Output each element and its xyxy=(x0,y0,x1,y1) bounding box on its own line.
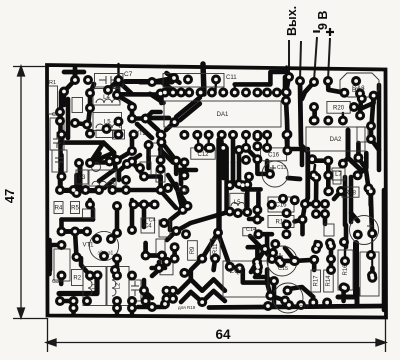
wire xyxy=(172,247,177,258)
wire xyxy=(62,92,67,106)
wire xyxy=(351,213,358,221)
inductor coil arcs xyxy=(88,99,245,296)
wire xyxy=(130,301,135,313)
wire xyxy=(75,232,77,258)
svg-text:VT1: VT1 xyxy=(83,243,95,249)
wire xyxy=(224,148,229,211)
pad xyxy=(156,137,166,147)
component L7 xyxy=(332,168,345,180)
pad xyxy=(170,117,180,127)
pad xyxy=(242,180,252,190)
wire xyxy=(73,68,78,80)
wire xyxy=(62,229,88,234)
wire xyxy=(256,193,261,211)
svg-text:L1: L1 xyxy=(92,282,98,289)
component can outline xyxy=(350,216,379,245)
wire xyxy=(279,259,294,264)
wire xyxy=(157,262,162,268)
wire xyxy=(354,96,374,109)
svg-text:C7: C7 xyxy=(124,71,133,78)
pad xyxy=(205,143,215,153)
wire xyxy=(117,151,132,160)
wire xyxy=(203,64,204,94)
wire xyxy=(115,259,120,276)
wire xyxy=(168,175,188,206)
component can outline xyxy=(267,246,297,276)
component outline xyxy=(324,224,334,236)
component L3 xyxy=(76,170,88,184)
pad xyxy=(156,185,166,195)
wire xyxy=(78,163,83,188)
svg-text:C3: C3 xyxy=(52,279,59,285)
wire xyxy=(221,148,226,178)
pad xyxy=(135,163,145,173)
pad xyxy=(179,268,189,278)
svg-text:R17: R17 xyxy=(313,275,319,287)
pad xyxy=(147,77,157,87)
wire xyxy=(48,245,53,270)
pad xyxy=(252,130,262,140)
wire xyxy=(90,160,110,165)
pad xyxy=(197,297,207,307)
svg-text:C16: C16 xyxy=(275,203,287,209)
component R18 xyxy=(342,187,359,197)
wire xyxy=(328,81,344,93)
wire xyxy=(251,262,257,272)
svg-text:C17: C17 xyxy=(299,305,309,311)
wire xyxy=(170,210,183,230)
svg-text:C4: C4 xyxy=(144,224,152,230)
wire xyxy=(160,190,176,208)
wire xyxy=(130,200,135,230)
wire xyxy=(344,249,346,261)
wire xyxy=(180,104,200,121)
pad xyxy=(121,175,131,185)
pad xyxy=(85,158,95,168)
component outline xyxy=(150,143,161,156)
pad xyxy=(141,296,151,306)
component DA1 xyxy=(164,101,281,127)
svg-text:R5: R5 xyxy=(71,206,79,212)
wire xyxy=(353,243,359,297)
pad xyxy=(309,255,319,265)
pad xyxy=(265,169,275,179)
component L5 xyxy=(230,193,245,210)
dimension line bottom 64 xyxy=(46,318,386,352)
pad xyxy=(262,88,272,98)
wire xyxy=(59,220,64,232)
wire leads to supply pads xyxy=(289,37,330,81)
pad xyxy=(272,88,282,98)
pad xyxy=(156,164,166,174)
wire xyxy=(343,177,348,225)
svg-text:L7: L7 xyxy=(335,172,342,178)
wire xyxy=(159,92,164,103)
wire xyxy=(47,240,52,274)
wire xyxy=(88,200,93,205)
pad xyxy=(150,200,160,210)
svg-text:C1: C1 xyxy=(52,112,59,118)
pad xyxy=(127,146,137,156)
wire xyxy=(152,266,165,271)
pad xyxy=(176,88,186,98)
pad xyxy=(207,88,217,98)
wire xyxy=(302,82,314,99)
pad xyxy=(284,72,294,82)
wire xyxy=(255,210,260,220)
pad xyxy=(282,208,292,218)
pad xyxy=(112,254,122,264)
pad xyxy=(70,227,80,237)
wire xyxy=(233,84,235,92)
pad xyxy=(156,155,166,165)
pad xyxy=(112,201,122,211)
pad xyxy=(322,298,332,308)
wire xyxy=(132,116,146,121)
wire xyxy=(174,161,179,174)
wire xyxy=(60,299,74,304)
pad xyxy=(156,130,166,140)
pad xyxy=(357,94,367,104)
wire xyxy=(338,295,356,300)
wire xyxy=(288,178,300,179)
component outline xyxy=(156,239,165,254)
wire xyxy=(62,229,76,234)
pad xyxy=(114,130,124,140)
svg-text:R18: R18 xyxy=(345,190,357,196)
pad xyxy=(268,248,278,258)
pad xyxy=(280,296,290,306)
wire xyxy=(59,273,64,284)
wire xyxy=(178,279,225,292)
component R12 xyxy=(268,216,294,228)
pad xyxy=(326,241,336,251)
pad xyxy=(69,296,79,306)
pad xyxy=(252,88,262,98)
component C12 xyxy=(191,148,215,159)
pad xyxy=(168,88,178,98)
wire xyxy=(144,291,152,299)
pad xyxy=(309,170,319,180)
pad xyxy=(85,88,95,98)
pad xyxy=(309,77,319,87)
wire xyxy=(368,191,373,205)
wire xyxy=(285,67,287,77)
pad xyxy=(278,194,288,204)
pad xyxy=(179,130,189,140)
pad xyxy=(233,208,243,218)
pad xyxy=(252,257,262,267)
pad xyxy=(298,215,308,225)
pad xyxy=(311,209,321,219)
pad xyxy=(178,205,188,215)
pad xyxy=(168,294,178,304)
pad xyxy=(241,143,251,153)
pad xyxy=(170,242,180,252)
svg-text:C16: C16 xyxy=(268,153,280,159)
pad xyxy=(276,258,286,268)
pad xyxy=(127,114,137,124)
pad xyxy=(289,256,299,266)
svg-text:L4: L4 xyxy=(103,95,110,101)
wire xyxy=(146,119,158,131)
wire xyxy=(64,80,75,92)
wire xyxy=(329,246,334,270)
pad xyxy=(281,229,291,239)
label plus xyxy=(326,28,334,36)
pad xyxy=(57,130,67,140)
wire xyxy=(59,155,64,177)
wire xyxy=(128,155,140,163)
wire xyxy=(59,276,97,294)
wire xyxy=(216,140,221,233)
dimension line left 47 xyxy=(13,66,47,319)
wire xyxy=(137,124,152,138)
pad xyxy=(228,130,238,140)
wire xyxy=(126,188,165,193)
wire xyxy=(218,233,228,261)
svg-text:R9: R9 xyxy=(190,246,196,254)
pad xyxy=(355,89,365,99)
wire xyxy=(207,135,209,148)
pad xyxy=(323,116,333,126)
pad xyxy=(179,185,189,195)
wire xyxy=(74,175,79,193)
svg-text:47: 47 xyxy=(2,189,17,203)
pad xyxy=(353,170,363,180)
pad xyxy=(218,88,228,98)
pad xyxy=(366,186,376,196)
svg-text:DA1: DA1 xyxy=(217,112,229,118)
wire xyxy=(257,249,265,262)
wire xyxy=(146,157,151,168)
wire xyxy=(209,306,384,308)
pad xyxy=(82,120,92,130)
component outline xyxy=(243,228,256,236)
pad xyxy=(235,263,245,273)
component can outline xyxy=(89,231,118,260)
wire xyxy=(119,82,131,93)
pad xyxy=(112,155,122,165)
pad xyxy=(218,143,228,153)
component can outline xyxy=(262,161,288,187)
pad xyxy=(103,85,113,95)
wire xyxy=(176,212,230,232)
wire xyxy=(71,189,95,194)
pad xyxy=(241,155,251,165)
wire xyxy=(160,140,176,161)
wire xyxy=(231,135,236,163)
wire xyxy=(255,277,274,284)
pad xyxy=(320,199,330,209)
pad xyxy=(340,283,350,293)
wire xyxy=(152,266,163,276)
wire xyxy=(62,217,94,222)
wire xyxy=(90,143,104,163)
pad xyxy=(57,240,67,250)
component outline xyxy=(95,74,124,88)
wire xyxy=(125,79,165,84)
pad xyxy=(179,157,189,167)
pad xyxy=(114,75,124,85)
solder pads xyxy=(55,72,379,313)
wire xyxy=(249,217,262,222)
wire xyxy=(257,159,270,174)
wire xyxy=(119,164,127,180)
wire xyxy=(191,259,202,280)
component R5 xyxy=(71,202,80,214)
wire xyxy=(90,153,114,164)
wire xyxy=(152,78,174,82)
pad xyxy=(163,183,173,193)
wire xyxy=(179,170,184,184)
wire xyxy=(246,148,257,159)
pad xyxy=(367,228,377,238)
wire xyxy=(349,177,354,222)
component R9 xyxy=(188,241,198,261)
wire xyxy=(344,225,349,247)
component L5 xyxy=(93,113,122,131)
wire xyxy=(144,291,146,302)
pad xyxy=(267,200,277,210)
pad xyxy=(179,170,189,180)
wire xyxy=(235,72,289,84)
svg-text:э1: э1 xyxy=(108,251,114,257)
pad xyxy=(55,107,65,117)
wire xyxy=(130,135,135,152)
pad xyxy=(129,130,139,140)
wire xyxy=(285,134,290,150)
wire xyxy=(140,80,172,85)
wire xyxy=(81,258,90,276)
wire xyxy=(371,235,373,276)
pad xyxy=(171,226,181,236)
wire xyxy=(358,158,364,166)
pad xyxy=(311,244,321,254)
svg-text:L3: L3 xyxy=(79,175,86,181)
svg-text:DA2: DA2 xyxy=(330,137,342,143)
pad xyxy=(157,251,167,261)
pad xyxy=(211,75,221,85)
component outline xyxy=(96,130,114,138)
pad xyxy=(262,143,272,153)
pad xyxy=(339,237,349,247)
component L4 xyxy=(93,89,120,106)
svg-text:R14: R14 xyxy=(326,275,332,287)
pad xyxy=(106,234,116,244)
wire xyxy=(132,162,144,177)
pad xyxy=(252,141,262,151)
pad xyxy=(290,195,300,205)
pad xyxy=(244,172,254,182)
wire xyxy=(243,270,267,283)
pad xyxy=(313,240,323,250)
pad xyxy=(105,157,115,167)
pad xyxy=(194,143,204,153)
wire xyxy=(158,177,163,191)
pad xyxy=(144,140,154,150)
wire xyxy=(91,209,96,220)
pad xyxy=(326,265,336,275)
pad xyxy=(225,180,235,190)
component R14 xyxy=(324,270,334,292)
pad xyxy=(112,90,122,100)
wire xyxy=(323,214,328,224)
wire xyxy=(358,153,367,175)
wire xyxy=(382,190,387,310)
pad xyxy=(192,130,202,140)
wire xyxy=(167,259,175,262)
pad xyxy=(296,300,306,310)
wire xyxy=(245,190,250,207)
pad xyxy=(269,276,279,286)
pad xyxy=(184,88,194,98)
pad xyxy=(369,91,379,101)
pad xyxy=(311,173,321,183)
wire xyxy=(181,291,225,302)
wire xyxy=(300,149,305,165)
pad xyxy=(85,200,95,210)
op-amp DA3 outline xyxy=(340,73,379,97)
pad xyxy=(336,186,346,196)
wire xyxy=(257,232,272,237)
wire xyxy=(287,147,307,152)
pad xyxy=(85,103,95,113)
svg-text:R1: R1 xyxy=(49,80,56,86)
pad xyxy=(156,89,166,99)
wire xyxy=(303,204,306,234)
pad xyxy=(170,254,180,264)
wire xyxy=(138,305,165,310)
pad xyxy=(112,271,122,281)
wire xyxy=(134,202,155,207)
pad xyxy=(353,153,363,163)
wire xyxy=(176,168,196,173)
pad xyxy=(339,282,349,292)
pad xyxy=(283,286,293,296)
pad xyxy=(217,130,227,140)
pad xyxy=(147,302,157,312)
pad xyxy=(112,303,122,313)
wire xyxy=(58,110,63,190)
wire xyxy=(356,143,361,158)
component outline xyxy=(129,280,141,301)
pad xyxy=(367,270,377,280)
wire xyxy=(369,126,374,139)
wire xyxy=(237,155,242,180)
pad xyxy=(127,225,137,235)
pad xyxy=(252,205,262,215)
pad xyxy=(282,88,292,98)
component outline xyxy=(160,260,173,275)
pad xyxy=(323,170,333,180)
pad xyxy=(70,75,80,85)
pad xyxy=(323,76,333,86)
svg-text:R20: R20 xyxy=(333,106,345,112)
pad xyxy=(252,266,262,276)
wire xyxy=(245,135,247,148)
wire xyxy=(88,108,90,125)
component R2 xyxy=(72,270,84,286)
wire xyxy=(366,170,369,188)
pad xyxy=(324,186,334,196)
pad xyxy=(204,130,214,140)
wire xyxy=(176,98,200,117)
wire xyxy=(334,191,341,199)
wire xyxy=(142,205,147,228)
wire xyxy=(286,287,314,297)
wire xyxy=(250,236,272,259)
